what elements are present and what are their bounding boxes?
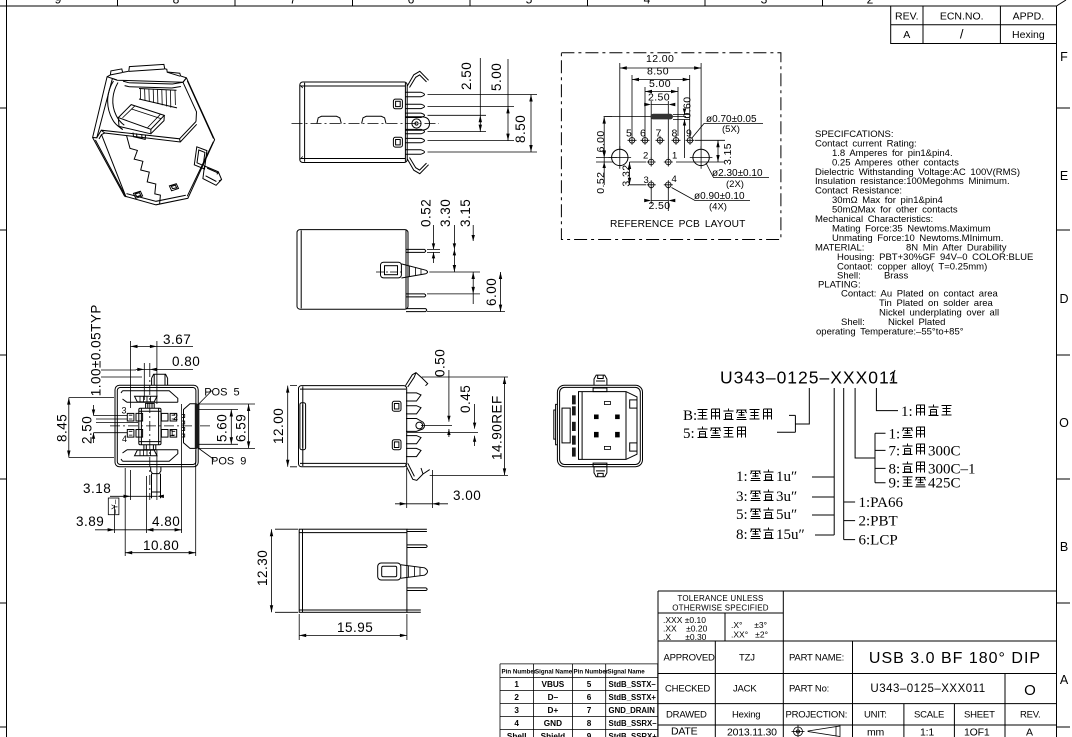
svg-text:StdB_SSRX–: StdB_SSRX– (609, 719, 658, 728)
svg-text:(4X): (4X) (709, 202, 727, 213)
svg-text:Pin Number: Pin Number (502, 669, 537, 676)
svg-text:Shell: Shell (507, 732, 527, 737)
cavity left wavy channel (113, 83, 125, 126)
svg-text:6: 6 (587, 693, 592, 702)
front rim edge band (97, 122, 197, 197)
leader from X2 to resin rows (844, 388, 855, 540)
projection symbol (792, 726, 841, 737)
svg-text:/: / (960, 27, 964, 42)
svg-text:POS 9: POS 9 (211, 455, 246, 467)
svg-text:0.60: 0.60 (682, 96, 694, 118)
right zone tick marks (1057, 108, 1071, 727)
callout 0.70 5X (692, 114, 764, 139)
svg-text:3: 3 (122, 406, 127, 416)
leader from X1 to plating rows (812, 388, 834, 535)
svg-text:0.45: 0.45 (458, 385, 473, 413)
svg-text:REV.: REV. (1020, 710, 1041, 721)
svg-text:1:: 1: (901, 404, 913, 420)
svg-text:1: 1 (170, 428, 175, 438)
POS 9 callout (198, 448, 246, 467)
dim 6.59 (199, 404, 256, 448)
svg-text:mm: mm (867, 727, 885, 737)
svg-text:U343–0125–XXX011: U343–0125–XXX011 (870, 683, 985, 695)
svg-text:9: 9 (686, 128, 692, 140)
svg-text:.XX° ±2°: .XX° ±2° (731, 630, 768, 640)
specifications text block (815, 129, 1033, 337)
body outline (297, 230, 408, 310)
trapezoid dimple 1 (317, 116, 341, 123)
svg-text:2: 2 (867, 0, 874, 7)
svg-text:2: 2 (173, 412, 178, 422)
svg-text:12.30: 12.30 (255, 550, 270, 586)
ext lines (427, 249, 505, 311)
svg-text:4: 4 (122, 434, 127, 444)
svg-text:4.80: 4.80 (152, 514, 180, 529)
svg-text:0.52: 0.52 (419, 199, 434, 227)
dim 2.50 bottom (644, 188, 675, 212)
svg-text:1: 1 (514, 680, 519, 689)
contact bars column (572, 395, 576, 456)
outer shell (557, 385, 642, 467)
svg-text:D: D (1059, 292, 1068, 306)
dim 3.15 right (676, 140, 734, 165)
latch square upper (393, 99, 402, 109)
drawing frame: right border line (1056, 6, 1058, 737)
svg-text:U343–0125–XXX011: U343–0125–XXX011 (720, 368, 899, 388)
dim 6.00 (484, 272, 502, 312)
callout 2.30 2X (706, 163, 769, 190)
right face latch (194, 147, 207, 169)
leader from X3 to color rows (855, 388, 885, 483)
bottom fold dimple (135, 450, 158, 456)
left lower face inner edge (95, 140, 126, 197)
latch square lower (393, 137, 402, 147)
svg-text:Signal Name: Signal Name (535, 669, 573, 676)
svg-text:StdB_SSTX+: StdB_SSTX+ (609, 693, 657, 702)
svg-text:3: 3 (761, 0, 768, 7)
svg-text:300C: 300C (928, 443, 961, 459)
cone (401, 565, 428, 578)
bottom clip (407, 158, 428, 174)
pin pair top (406, 249, 426, 252)
pins (7 flat pins) (405, 92, 424, 154)
dim 3.32 (621, 162, 647, 187)
svg-text:1.00±0.05TYP: 1.00±0.05TYP (88, 304, 103, 396)
svg-text:7: 7 (290, 0, 297, 7)
dim 2.50 (80, 405, 139, 444)
svg-text:3:: 3: (736, 489, 748, 505)
top zone tick marks (118, 0, 823, 6)
svg-text:3: 3 (514, 706, 519, 715)
svg-text:A: A (903, 29, 910, 41)
svg-text:4: 4 (514, 719, 519, 728)
holes pins 3,4 (647, 180, 673, 189)
pin upper (407, 545, 427, 548)
svg-text:15u″: 15u″ (776, 527, 805, 543)
svg-text:TZJ: TZJ (739, 653, 755, 664)
contacts upper-right pair (161, 413, 176, 421)
dim 10.80 (125, 450, 196, 556)
svg-text:Shield: Shield (541, 732, 566, 737)
dim 3.67 (131, 332, 194, 408)
pin pair lower (406, 294, 426, 297)
svg-text:12.00: 12.00 (271, 408, 286, 444)
svg-text:Pin Number: Pin Number (574, 669, 609, 676)
svg-text:PART NAME:: PART NAME: (789, 653, 844, 664)
svg-text:14.90REF: 14.90REF (490, 395, 505, 460)
plating row 1 (736, 469, 797, 485)
revision table top right (891, 6, 1057, 44)
svg-text:3u″: 3u″ (776, 489, 797, 505)
dim 0.45 (458, 385, 476, 446)
top tab (152, 374, 168, 385)
color rows (889, 426, 925, 442)
centerlines (149, 367, 151, 500)
ext lines (407, 426, 479, 433)
pin pair bottom (406, 309, 427, 312)
outer shell (115, 385, 198, 467)
cavity left wall (108, 81, 123, 129)
svg-text:3.15: 3.15 (458, 199, 473, 227)
top tab (594, 375, 607, 385)
dim 12.30 (255, 529, 298, 612)
pin lower (407, 588, 427, 591)
drawing frame: top border line (0, 5, 1057, 7)
drawing frame: left border line (6, 0, 8, 737)
label B: stainless shell (683, 408, 772, 424)
title block (658, 591, 1057, 737)
svg-text:A: A (1060, 673, 1069, 687)
svg-text:12.00: 12.00 (646, 53, 674, 65)
plating row 5 (736, 507, 797, 523)
svg-text:7:: 7: (889, 443, 901, 459)
top zone digits (cut off at top edge) (55, 0, 874, 7)
svg-text:4: 4 (644, 0, 651, 7)
foot hole left (134, 191, 143, 198)
dim 5.00 (489, 59, 510, 141)
bottom pin lines (407, 610, 421, 612)
svg-text:GND: GND (544, 719, 562, 728)
bottom tab (594, 467, 607, 477)
svg-text:F: F (1060, 50, 1068, 64)
svg-text:15.95: 15.95 (337, 620, 373, 635)
svg-text:1OF1: 1OF1 (964, 727, 990, 737)
solder slot (651, 114, 674, 120)
svg-text:3.18: 3.18 (83, 481, 111, 496)
svg-text:7: 7 (587, 706, 592, 715)
dim 0.60 vertical (673, 96, 694, 158)
dim 3.18 (83, 450, 164, 500)
svg-text:9: 9 (587, 732, 592, 737)
svg-text:B: B (1060, 540, 1068, 554)
svg-text:8.50: 8.50 (647, 66, 669, 78)
top clip (407, 71, 428, 87)
svg-text:0.50: 0.50 (433, 349, 448, 377)
dim 6.00 left (595, 117, 617, 158)
body outline (299, 529, 407, 612)
back wall rim (123, 81, 183, 88)
label 5: copper shell (683, 426, 746, 442)
svg-text:6.00: 6.00 (484, 278, 499, 306)
svg-text:PROJECTION:: PROJECTION: (786, 710, 848, 721)
contacts lower-right pair (161, 430, 176, 438)
svg-text:5u″: 5u″ (776, 507, 797, 523)
rim inner edges along top (111, 69, 180, 76)
svg-text:3.67: 3.67 (163, 332, 191, 347)
svg-text:ø0.90±0.10: ø0.90±0.10 (694, 191, 745, 202)
left tab (300, 403, 306, 450)
svg-text:2:PBT: 2:PBT (859, 514, 898, 530)
tick after last char (891, 370, 895, 381)
svg-text:SHEET: SHEET (964, 710, 995, 721)
pcb boundary dash-dot box (561, 53, 781, 240)
svg-text:2013.11.30: 2013.11.30 (727, 727, 777, 737)
svg-text:Hexing: Hexing (732, 710, 760, 721)
svg-text:8: 8 (672, 128, 678, 140)
POS 5 callout (198, 387, 239, 405)
svg-text:Hexing: Hexing (1012, 29, 1045, 41)
svg-text:O: O (1059, 416, 1069, 430)
svg-text:Signal Name: Signal Name (608, 669, 646, 676)
dim 8.50 (513, 95, 533, 153)
dim 0.50 (433, 349, 451, 437)
svg-text:SCALE: SCALE (914, 710, 944, 721)
dim 5.00 (645, 78, 678, 136)
dim 8.45 (55, 398, 115, 458)
svg-text:9:: 9: (889, 476, 901, 492)
svg-text:2: 2 (514, 693, 519, 702)
left window (562, 408, 570, 443)
dim 2.50 small top (644, 92, 675, 159)
bottom clip (406, 463, 430, 480)
body outline (300, 82, 407, 163)
holes pins 5-9 (628, 136, 695, 145)
trapezoid dimple 2 (362, 116, 386, 123)
back wall contacts hatch (140, 89, 175, 108)
pin assignment table (500, 664, 658, 737)
svg-text:1:PA66: 1:PA66 (859, 495, 904, 511)
svg-text:5:: 5: (683, 426, 695, 442)
svg-text:425C: 425C (928, 476, 961, 492)
tongue bottom neck (144, 445, 156, 450)
svg-text:8: 8 (587, 719, 592, 728)
slot centerline (604, 116, 687, 118)
svg-text:8.50: 8.50 (513, 115, 528, 143)
svg-text:REFERENCE PCB LAYOUT: REFERENCE PCB LAYOUT (610, 219, 745, 230)
latch button (378, 563, 401, 580)
svg-text:2.50: 2.50 (649, 200, 671, 212)
contacts upper-left pair (127, 413, 142, 421)
package row (901, 404, 952, 420)
drawing frame: top-right corner diagonal (1057, 0, 1067, 6)
svg-text:PART No:: PART No: (789, 684, 829, 695)
svg-text:GND_DRAIN: GND_DRAIN (609, 706, 656, 715)
inner frame (579, 392, 638, 460)
svg-text:DATE: DATE (671, 726, 698, 737)
dim 12.00 (271, 386, 297, 467)
svg-text:6.00: 6.00 (595, 130, 607, 152)
svg-text:.X° ±3°: .X° ±3° (731, 620, 767, 630)
svg-text:5: 5 (587, 680, 592, 689)
svg-text:6:LCP: 6:LCP (859, 533, 898, 549)
leader from 01"1" to package row (876, 388, 898, 411)
svg-text:TOLERANCE UNLESS: TOLERANCE UNLESS (677, 594, 763, 603)
svg-text:1:: 1: (736, 469, 748, 485)
svg-text:5: 5 (526, 0, 533, 7)
top inner rect (593, 388, 607, 392)
svg-text:E: E (1060, 169, 1068, 183)
2 slots (604, 402, 610, 405)
side pin cylinder (203, 166, 222, 185)
body outline (299, 386, 407, 467)
svg-text:StdB_SSTX–: StdB_SSTX– (609, 680, 657, 689)
resin rows (859, 495, 904, 511)
svg-text:D–: D– (548, 693, 559, 702)
dim 4.80 (146, 404, 181, 533)
neck under tongue (133, 133, 146, 140)
bottom inner fold (121, 450, 178, 462)
svg-text:VBUS: VBUS (542, 680, 565, 689)
right zone letters (1059, 50, 1069, 687)
zigzag seam on front face (127, 135, 161, 204)
dim 0.80 (136, 354, 200, 400)
dim 14.90REF (422, 377, 508, 475)
rim band left (93, 77, 117, 138)
bottom tab and post (151, 467, 161, 474)
svg-text:8: 8 (173, 0, 180, 7)
top clip (406, 373, 428, 387)
svg-text:8.45: 8.45 (55, 414, 70, 442)
dim 1.00 TYP label (88, 304, 142, 396)
svg-text:5.00: 5.00 (649, 78, 671, 90)
svg-text:3: 3 (644, 175, 649, 186)
svg-text:A: A (1026, 727, 1033, 737)
svg-text:5.00: 5.00 (489, 63, 504, 91)
svg-text:ø2.30±0.10: ø2.30±0.10 (712, 168, 763, 179)
tongue top neck (146, 403, 155, 408)
tongue inner lines (123, 106, 161, 128)
dim 12.00 top (620, 53, 701, 150)
svg-text:3.00: 3.00 (453, 488, 481, 503)
svg-text:6: 6 (640, 128, 646, 140)
big mount holes 2X (609, 146, 713, 169)
cone pin (401, 264, 427, 278)
svg-text:5.60: 5.60 (215, 414, 230, 442)
dim 3.15 (458, 199, 475, 304)
top pin lines (407, 529, 427, 531)
svg-text:ECN.NO.: ECN.NO. (940, 11, 984, 23)
svg-text:OTHERWISE SPECIFIED: OTHERWISE SPECIFIED (672, 604, 769, 613)
contacts lower-left pair (127, 430, 142, 438)
bottom inner rect (593, 463, 607, 467)
svg-text:JACK: JACK (733, 684, 757, 695)
tongue block front faces (118, 115, 164, 133)
svg-text:B:: B: (683, 408, 697, 424)
svg-text:APPD.: APPD. (1013, 11, 1045, 23)
svg-text:6: 6 (408, 0, 415, 7)
dim 3.30 (438, 199, 456, 272)
svg-text:8:: 8: (736, 527, 748, 543)
right face top edge inner (183, 78, 214, 139)
dim 2.50 (459, 58, 482, 132)
top inner fold (121, 391, 178, 403)
latch button (381, 262, 402, 278)
top fold dimple (135, 396, 158, 402)
base inner edges (127, 142, 214, 202)
comb teeth (406, 393, 425, 457)
svg-text:0.80: 0.80 (172, 354, 200, 369)
dim 5.60 (199, 410, 239, 445)
4 center squares (594, 415, 620, 438)
dim 0.52 left lower (595, 151, 613, 193)
foot hole right (169, 184, 178, 191)
svg-text:3.30: 3.30 (438, 199, 453, 227)
outer silhouette (93, 64, 215, 204)
dim 8.50 (632, 66, 690, 137)
svg-text:1u″: 1u″ (776, 469, 797, 485)
plating row 8 (736, 527, 805, 543)
plating row 3 (736, 489, 797, 505)
svg-text:CHECKED: CHECKED (665, 684, 710, 695)
svg-text:1:1: 1:1 (920, 727, 934, 737)
callout 0.90 4X (672, 188, 751, 213)
svg-text:REV.: REV. (895, 11, 919, 23)
leader from digit 5 to shell-material labels (777, 388, 809, 432)
centerline (292, 123, 440, 125)
center pin with rivet (405, 117, 429, 130)
dim 3.00 (395, 468, 481, 508)
svg-text:7: 7 (656, 128, 662, 140)
svg-text:5:: 5: (736, 507, 748, 523)
svg-text:USB 3.0 BF 180° DIP: USB 3.0 BF 180° DIP (869, 650, 1041, 667)
pin paddle right (184, 404, 197, 449)
center tongue (139, 408, 161, 444)
svg-text:.X ±0.30: .X ±0.30 (663, 632, 707, 642)
extension lines for dims (428, 95, 538, 153)
svg-text:10.80: 10.80 (143, 538, 179, 553)
dim 0.52 (419, 199, 436, 263)
svg-text:DRAWED: DRAWED (666, 710, 707, 721)
svg-text:operating Temperature:–55°to+: operating Temperature:–55°to+85° (816, 326, 964, 337)
opening outline (112, 78, 196, 122)
svg-text:9: 9 (55, 0, 62, 7)
svg-text:1: 1 (672, 150, 677, 161)
svg-text:APPROVED: APPROVED (664, 653, 716, 664)
latch squares (392, 401, 401, 411)
left zone tick marks (0, 108, 7, 727)
latch centerline (376, 271, 404, 273)
svg-text:O: O (1024, 682, 1036, 699)
svg-text:(2X): (2X) (726, 179, 744, 190)
svg-text:0.52: 0.52 (595, 172, 607, 194)
rivet circle (416, 422, 423, 429)
holes pins 1,2 (647, 158, 673, 167)
svg-text:2.50: 2.50 (80, 416, 95, 444)
left protrusion (554, 404, 558, 444)
svg-text:4: 4 (672, 174, 677, 185)
dim 3.89 (76, 476, 153, 533)
svg-text:3.89: 3.89 (76, 514, 104, 529)
right small rects (630, 400, 637, 408)
svg-text:StdB_SSRX+: StdB_SSRX+ (609, 732, 658, 737)
svg-text:(5X): (5X) (722, 124, 740, 135)
section flag (108, 498, 119, 515)
svg-text:2.50: 2.50 (459, 62, 474, 90)
svg-text:D+: D+ (548, 706, 559, 715)
pin number labels 5-9 (626, 128, 692, 140)
svg-text:6.59: 6.59 (234, 414, 249, 442)
svg-text:UNIT:: UNIT: (864, 710, 887, 721)
